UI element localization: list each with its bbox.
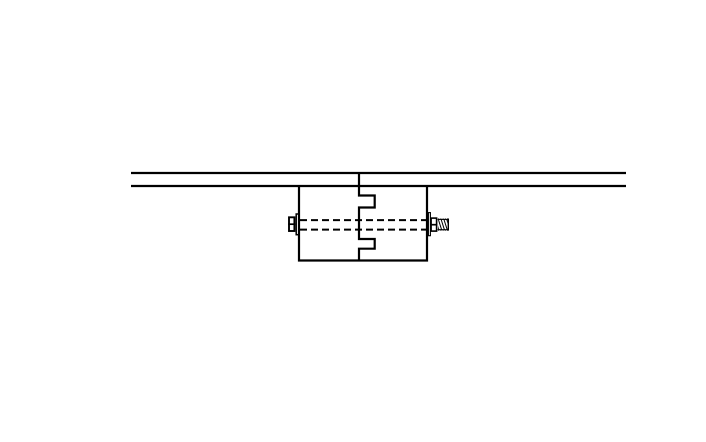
- joint vertical line through rails: [358, 172, 360, 187]
- bolt shank hidden line upper: [300, 219, 426, 221]
- left washer: [296, 214, 299, 235]
- nut: [430, 218, 437, 231]
- bolt head: [288, 217, 295, 231]
- split parting line with interlocking notches: [359, 186, 375, 261]
- bolt shank hidden line lower: [300, 229, 426, 231]
- bottom rail line: [131, 185, 626, 187]
- threaded bolt end: [435, 218, 450, 231]
- coupling block outline: [299, 186, 427, 261]
- top rail line: [131, 172, 626, 174]
- right washer: [428, 213, 430, 236]
